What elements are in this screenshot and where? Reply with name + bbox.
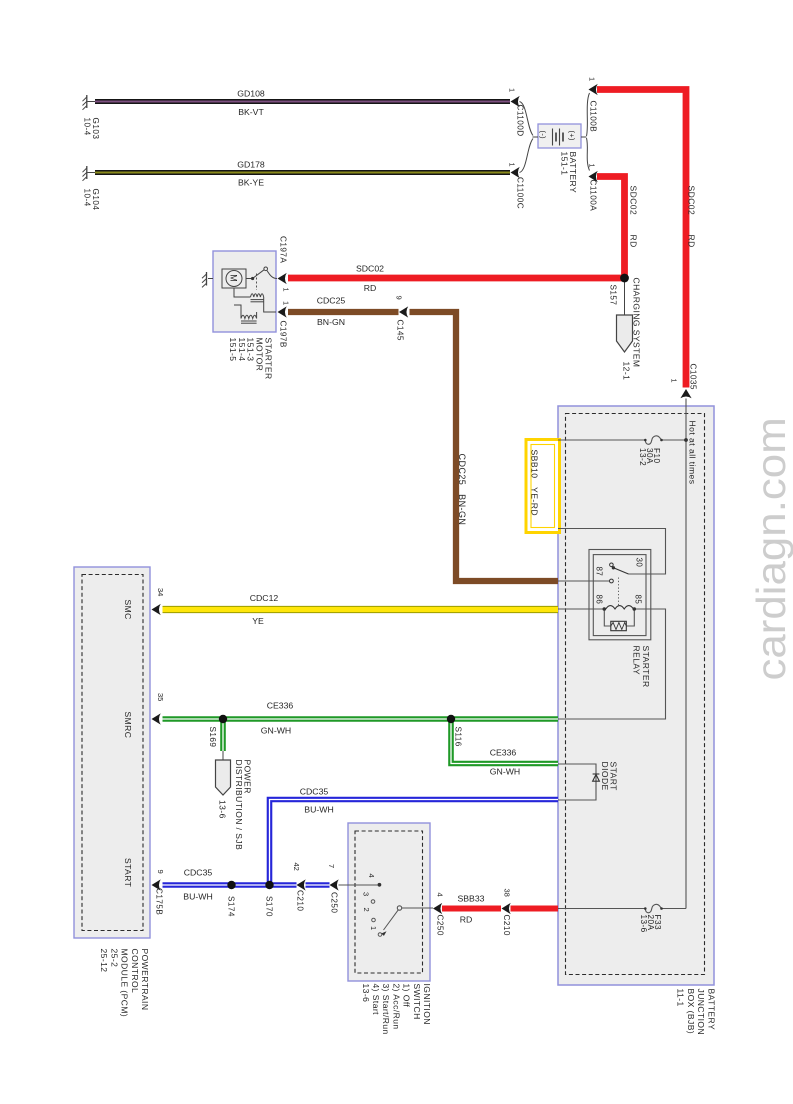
- svg-text:C1100A: C1100A: [589, 180, 598, 212]
- svg-text:38: 38: [503, 889, 512, 897]
- svg-text:1: 1: [369, 926, 378, 930]
- svg-text:RD: RD: [460, 915, 473, 925]
- svg-text:C250: C250: [330, 892, 339, 913]
- svg-text:C250: C250: [436, 915, 445, 936]
- svg-text:1: 1: [508, 163, 517, 167]
- svg-text:30: 30: [635, 558, 644, 568]
- svg-text:DISTRIBUTION / SJB: DISTRIBUTION / SJB: [234, 760, 244, 851]
- svg-text:C1100C: C1100C: [516, 177, 525, 209]
- svg-text:1: 1: [588, 164, 597, 168]
- svg-text:1: 1: [282, 301, 291, 305]
- svg-text:BK-YE: BK-YE: [238, 178, 264, 188]
- svg-text:9: 9: [156, 870, 165, 874]
- svg-text:CDC12: CDC12: [250, 593, 279, 603]
- svg-text:CE336: CE336: [490, 748, 517, 758]
- svg-text:S170: S170: [265, 896, 274, 917]
- svg-text:13-6: 13-6: [639, 915, 648, 933]
- svg-text:7: 7: [327, 864, 336, 868]
- svg-text:Hot at all times: Hot at all times: [688, 421, 698, 485]
- svg-text:1: 1: [588, 77, 597, 81]
- svg-text:BN-GN: BN-GN: [317, 317, 345, 327]
- svg-text:25-2: 25-2: [109, 949, 119, 968]
- svg-text:START: START: [123, 858, 133, 887]
- svg-text:86: 86: [595, 595, 604, 605]
- svg-text:3: 3: [362, 892, 371, 896]
- svg-text:SMC: SMC: [123, 600, 133, 620]
- svg-text:BU-WH: BU-WH: [183, 892, 212, 902]
- svg-text:42: 42: [292, 863, 301, 871]
- svg-text:RELAY: RELAY: [632, 646, 642, 676]
- svg-text:85: 85: [634, 595, 643, 605]
- svg-text:SBB33: SBB33: [457, 894, 484, 904]
- svg-text:C145: C145: [396, 320, 405, 341]
- svg-text:10-4: 10-4: [83, 189, 92, 207]
- svg-text:CONTROL: CONTROL: [130, 949, 140, 994]
- svg-text:S169: S169: [208, 727, 217, 748]
- svg-text:C175B: C175B: [155, 888, 164, 915]
- svg-text:cardiagn.com: cardiagn.com: [748, 417, 793, 680]
- svg-text:GN-WH: GN-WH: [490, 767, 520, 777]
- svg-text:1: 1: [508, 88, 517, 92]
- svg-text:C1100D: C1100D: [516, 105, 525, 137]
- svg-text:POWERTRAIN: POWERTRAIN: [140, 949, 150, 1011]
- svg-text:RD: RD: [629, 235, 639, 248]
- svg-text:13-2: 13-2: [638, 448, 647, 466]
- svg-text:MODULE (PCM): MODULE (PCM): [120, 949, 130, 1018]
- svg-text:CDC25 BN-GN: CDC25 BN-GN: [457, 454, 467, 526]
- svg-text:(-): (-): [539, 131, 548, 140]
- svg-text:SDC02: SDC02: [687, 186, 697, 216]
- svg-text:BU-WH: BU-WH: [304, 805, 333, 815]
- svg-text:1) Off: 1) Off: [402, 984, 412, 1008]
- svg-text:2: 2: [362, 908, 371, 912]
- svg-text:4: 4: [436, 893, 445, 897]
- svg-text:151-1: 151-1: [559, 152, 569, 176]
- svg-text:RD: RD: [364, 283, 377, 293]
- svg-text:CDC35: CDC35: [184, 868, 213, 878]
- svg-text:1: 1: [282, 288, 291, 292]
- svg-text:87: 87: [595, 567, 604, 577]
- svg-text:35: 35: [156, 693, 165, 701]
- svg-text:IGNITION: IGNITION: [422, 984, 432, 1025]
- svg-text:34: 34: [156, 588, 165, 596]
- svg-text:13-6: 13-6: [218, 800, 228, 819]
- svg-text:S157: S157: [609, 285, 618, 306]
- svg-text:SDC02: SDC02: [356, 264, 384, 274]
- svg-text:12-1: 12-1: [622, 362, 632, 381]
- svg-text:C210: C210: [296, 890, 305, 911]
- svg-text:9: 9: [395, 296, 404, 300]
- svg-text:C210: C210: [502, 915, 511, 936]
- svg-text:C1035: C1035: [689, 364, 698, 390]
- svg-text:2) Acc/Run: 2) Acc/Run: [391, 984, 401, 1030]
- svg-text:C197A: C197A: [279, 236, 288, 263]
- svg-text:13-6: 13-6: [361, 984, 371, 1003]
- svg-text:BK-VT: BK-VT: [238, 107, 264, 117]
- svg-text:JUNCTION: JUNCTION: [696, 989, 706, 1036]
- svg-text:CDC25: CDC25: [317, 296, 346, 306]
- svg-text:CDC35: CDC35: [300, 787, 329, 797]
- svg-text:C1100B: C1100B: [589, 101, 598, 133]
- svg-text:1: 1: [670, 379, 679, 383]
- svg-text:GN-WH: GN-WH: [261, 726, 291, 736]
- svg-text:(+): (+): [568, 131, 577, 141]
- svg-text:SBB10 YE-RD: SBB10 YE-RD: [530, 450, 540, 517]
- svg-text:BOX (BJB): BOX (BJB): [686, 989, 696, 1035]
- svg-text:C197B: C197B: [279, 321, 288, 348]
- svg-text:GD108: GD108: [237, 89, 265, 99]
- svg-text:S174: S174: [227, 896, 236, 917]
- svg-text:11-1: 11-1: [676, 989, 686, 1007]
- svg-text:10-4: 10-4: [83, 118, 92, 136]
- svg-text:3) Start/Run: 3) Start/Run: [381, 984, 391, 1035]
- svg-text:CE336: CE336: [267, 701, 294, 711]
- svg-text:4) Start: 4) Start: [371, 984, 381, 1016]
- svg-text:GD178: GD178: [237, 160, 265, 170]
- svg-text:151-5: 151-5: [228, 338, 238, 362]
- svg-text:4: 4: [367, 874, 376, 878]
- svg-text:YE: YE: [252, 616, 264, 626]
- svg-text:RD: RD: [687, 235, 697, 248]
- svg-text:DIODE: DIODE: [600, 762, 610, 791]
- svg-text:SDC02: SDC02: [629, 186, 639, 216]
- svg-text:25-12: 25-12: [99, 949, 109, 973]
- svg-text:BATTERY: BATTERY: [707, 989, 717, 1031]
- svg-text:M: M: [229, 274, 239, 282]
- svg-text:SMRC: SMRC: [123, 712, 133, 739]
- svg-text:S116: S116: [454, 727, 463, 747]
- svg-text:SWITCH: SWITCH: [412, 984, 422, 1020]
- svg-text:CHARGING SYSTEM: CHARGING SYSTEM: [632, 278, 642, 368]
